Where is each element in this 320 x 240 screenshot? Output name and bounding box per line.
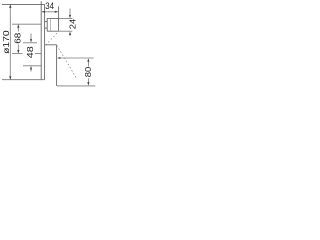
wall line left	[40, 1, 42, 80]
wire dim line 34	[42, 11, 57, 13]
handle neck top	[45, 21, 48, 23]
handle knob bottom	[47, 30, 58, 32]
wire tick 80 bottom	[57, 85, 95, 87]
wall line right	[44, 5, 46, 80]
svg-text:48: 48	[26, 46, 35, 59]
svg-text:34: 34	[45, 1, 54, 11]
handle knob face line	[50, 19, 52, 32]
wire tick 48 bottom	[23, 65, 41, 67]
arrowhead 24 top (outside, pointing down)	[69, 15, 71, 19]
wire dim line 48 lower shaft	[30, 68, 32, 72]
arrowhead 80 bottom	[87, 82, 89, 86]
arrowhead ø170 top	[9, 5, 11, 9]
wire tick 80 top with arrow	[58, 57, 93, 59]
background	[0, 0, 96, 96]
arrowhead 34 right	[55, 11, 59, 13]
wire top extension line	[2, 4, 45, 6]
box top edge	[45, 44, 57, 46]
arrowhead 24 bottom (outside, pointing up)	[69, 31, 71, 35]
wire tick 48 top	[23, 42, 37, 44]
arrowhead 68 top	[17, 24, 19, 28]
wire bottom extension line	[2, 79, 45, 81]
wire dim line 48 upper shaft	[30, 34, 32, 41]
arrowhead 34 left	[42, 11, 46, 13]
svg-text:68: 68	[13, 32, 22, 44]
arrowhead 48 top (outside, pointing down)	[30, 39, 32, 43]
wire dim line 80 lower shaft	[87, 78, 89, 84]
handle neck bottom	[45, 27, 48, 29]
hidden pipe dashed B lower	[57, 45, 77, 79]
wire ext line 34 right / knob right edge	[58, 6, 60, 31]
svg-text:24: 24	[68, 18, 77, 29]
arrowhead 80 top	[87, 58, 89, 62]
wire dim line 24 lower shaft	[69, 34, 71, 37]
wire tick 68 bottom right	[35, 53, 41, 55]
svg-text:ø170: ø170	[2, 30, 11, 54]
wire tick 24 top	[59, 18, 73, 20]
wire dim line 68 upper	[17, 25, 19, 31]
wire tick 68 bottom left	[12, 53, 23, 55]
wire dim line 80 upper shaft	[87, 60, 89, 67]
svg-text:80: 80	[84, 66, 93, 77]
arrowhead 48 bottom (outside, pointing up)	[30, 66, 32, 70]
handle knob outline	[47, 19, 58, 32]
box face edge	[56, 45, 58, 86]
arrowhead 68 bottom	[17, 50, 19, 54]
arrowhead ø170 bottom	[9, 76, 11, 80]
wire tick 68 top	[12, 23, 41, 25]
wire dim line 68 lower	[17, 45, 19, 53]
wire dim line 24 upper shaft	[69, 9, 71, 17]
arrowhead face pointer left	[57, 57, 60, 59]
wire dim line ø170	[9, 5, 11, 80]
hidden pipe dashed A	[46, 33, 57, 44]
wire tick 24 bottom	[59, 30, 73, 32]
